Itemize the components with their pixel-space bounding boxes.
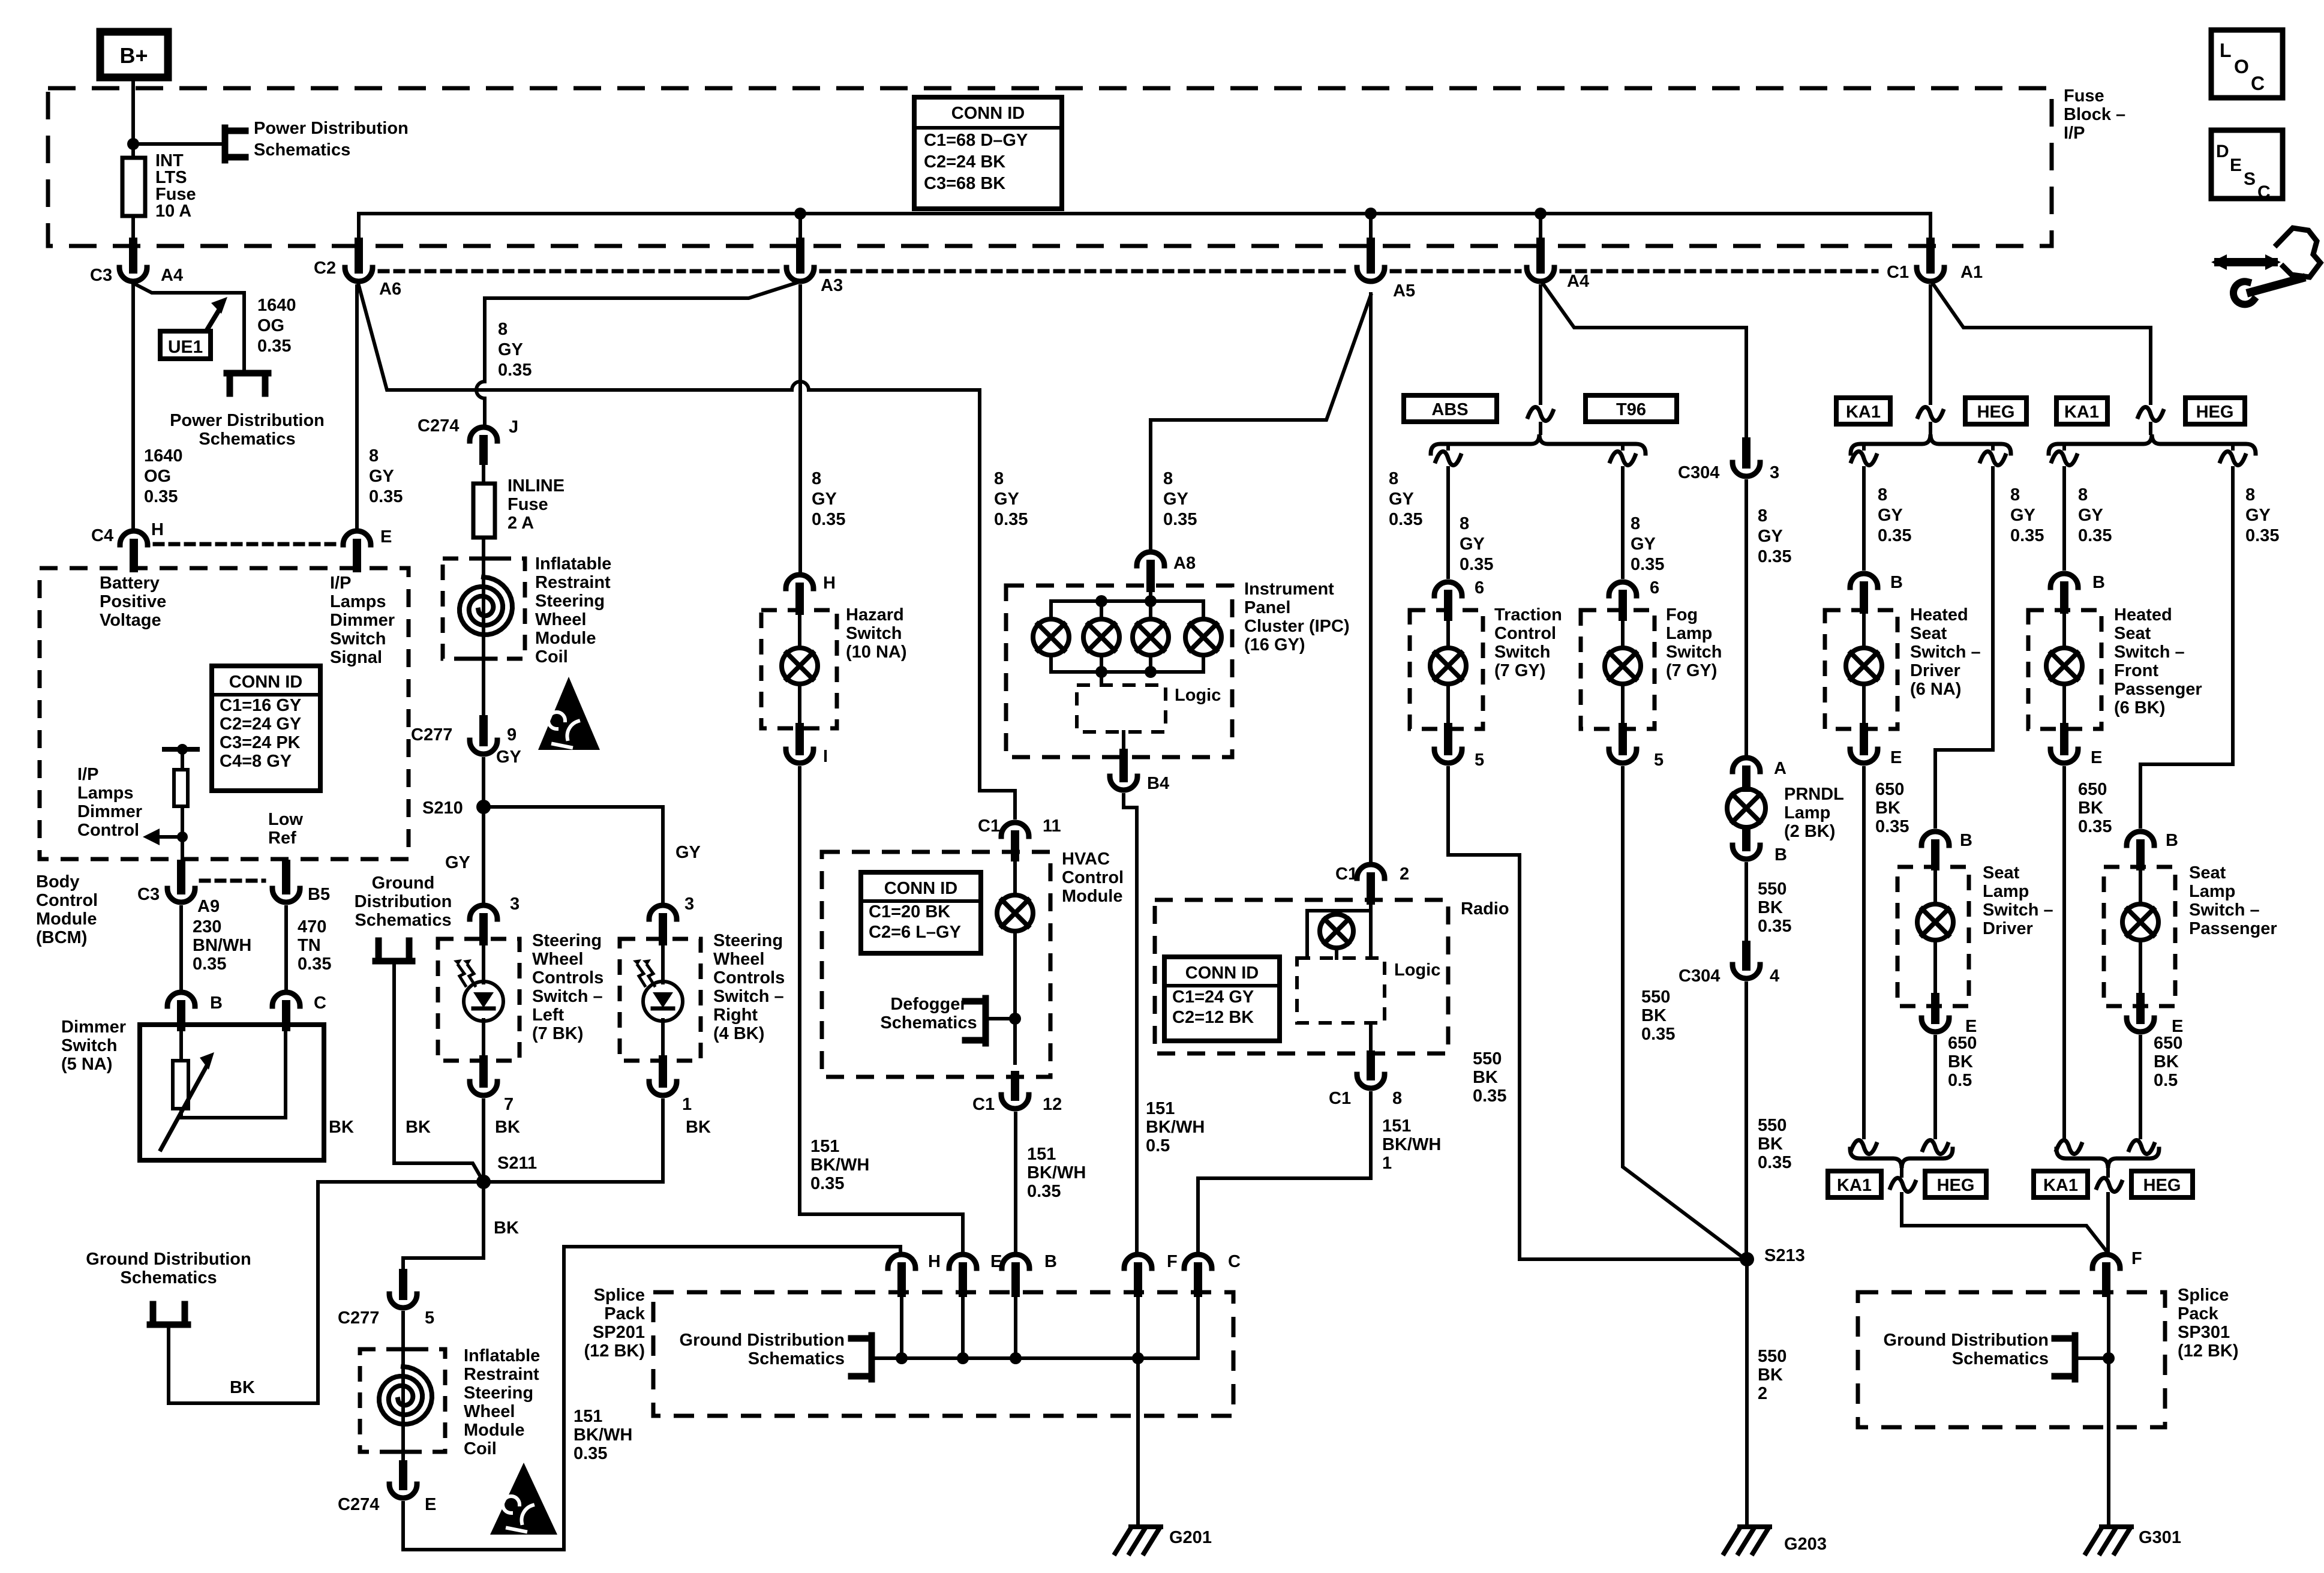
junction dot dimmer control	[177, 831, 188, 842]
svg-text:C1=24 GY: C1=24 GY	[1172, 987, 1254, 1007]
svg-text:230: 230	[193, 917, 221, 936]
lamp heated seat passenger	[2046, 648, 2082, 684]
connector 6 traction	[1434, 582, 1462, 596]
svg-text:B4: B4	[1147, 774, 1169, 793]
svg-text:Fog: Fog	[1666, 605, 1698, 625]
svg-text:Wheel: Wheel	[532, 950, 583, 969]
svg-text:B: B	[1960, 831, 1972, 850]
svg-text:Controls: Controls	[713, 968, 785, 987]
svg-text:Schematics: Schematics	[1952, 1349, 2049, 1368]
connector H hazard	[786, 575, 813, 589]
svg-text:0.35: 0.35	[1758, 1153, 1791, 1172]
svg-text:0.35: 0.35	[2245, 526, 2279, 545]
svg-text:Switch: Switch	[1494, 643, 1550, 662]
svg-text:A4: A4	[161, 266, 183, 285]
steering wheel controls switch right box	[620, 939, 701, 1061]
svg-text:3: 3	[510, 894, 520, 914]
svg-text:GY: GY	[2245, 506, 2271, 525]
svg-text:8: 8	[2245, 485, 2255, 505]
svg-text:Module: Module	[1062, 887, 1123, 906]
svg-text:C1=20 BK: C1=20 BK	[869, 902, 950, 921]
wire heated seat driver drop	[1862, 444, 1866, 449]
svg-text:5: 5	[425, 1308, 434, 1328]
reference bracket defogger	[983, 998, 989, 1043]
svg-text:CONN ID: CONN ID	[884, 879, 957, 898]
connector 7 left switch	[479, 1059, 488, 1083]
svg-text:Body: Body	[36, 872, 80, 891]
svg-text:0.35: 0.35	[810, 1174, 844, 1193]
svg-text:(12 BK): (12 BK)	[584, 1341, 645, 1361]
connector C304/3	[1742, 442, 1750, 464]
wire seat lamp passenger E down	[2139, 1037, 2142, 1137]
svg-text:Logic: Logic	[1394, 960, 1440, 980]
svg-text:Defogger: Defogger	[890, 995, 966, 1014]
svg-text:Ref: Ref	[268, 828, 296, 848]
dimmer variable resistor	[179, 1025, 183, 1061]
connector B4 IPC	[1119, 753, 1128, 778]
connector 6 fog	[1609, 582, 1637, 596]
arrow I/P lamps dimmer control	[155, 835, 182, 839]
svg-text:3: 3	[684, 894, 694, 914]
splice pack internal wires	[900, 1289, 903, 1358]
CONN ID table fuse block	[914, 97, 1062, 209]
brace driver group	[1851, 434, 2011, 454]
svg-text:GY: GY	[2078, 506, 2103, 525]
svg-text:Heated: Heated	[1910, 605, 1968, 625]
svg-text:GY: GY	[1389, 490, 1414, 509]
wire bracket to S211	[394, 961, 484, 1182]
svg-text:E: E	[2091, 748, 2102, 767]
svg-text:(10 NA): (10 NA)	[846, 643, 907, 662]
option box KA1 (driver)	[1836, 398, 1890, 424]
svg-text:9: 9	[507, 725, 517, 745]
wire traction 5 to S213	[1448, 768, 1740, 1259]
svg-text:10 A: 10 A	[155, 202, 191, 221]
wire out of heated driver lamp	[1862, 684, 1866, 728]
service icon arrow	[2218, 258, 2274, 266]
svg-text:C1: C1	[1887, 263, 1909, 282]
connector E heated driver	[1860, 727, 1868, 751]
seat lamp switch driver box	[1897, 867, 1969, 1006]
svg-text:0.35: 0.35	[1027, 1182, 1061, 1201]
wire C1/12 to splice pack B	[1014, 1113, 1017, 1251]
svg-text:550: 550	[1758, 879, 1786, 899]
svg-text:0.5: 0.5	[2154, 1071, 2178, 1090]
svg-text:Passenger: Passenger	[2189, 919, 2277, 938]
svg-text:OG: OG	[144, 467, 171, 486]
svg-text:BK: BK	[1758, 898, 1783, 917]
wire B+ stem	[131, 77, 135, 158]
svg-text:Lamp: Lamp	[1666, 624, 1712, 643]
BCM lower dotted line	[201, 879, 264, 883]
brace passenger group	[2049, 434, 2256, 454]
wire out of seat lamp passenger	[2139, 940, 2142, 1006]
svg-text:GY: GY	[812, 490, 837, 509]
option box KA1 (driver bottom)	[1828, 1171, 1881, 1197]
connector 1 right switch	[659, 1059, 667, 1083]
splice pack bus	[872, 1356, 1198, 1360]
connector C277/9	[479, 719, 488, 742]
crossing tick coil box top	[472, 557, 496, 561]
reference bracket Power Distribution Schematics	[222, 128, 229, 160]
svg-text:BK: BK	[230, 1378, 255, 1397]
svg-text:(16 GY): (16 GY)	[1244, 635, 1305, 655]
svg-text:0.35: 0.35	[1631, 555, 1664, 574]
connector B seat lamp passenger	[2127, 831, 2154, 845]
wire S211 horizontal to left riser	[318, 1180, 484, 1184]
svg-text:0.35: 0.35	[1163, 510, 1197, 529]
svg-text:BK: BK	[1948, 1052, 1973, 1071]
svg-text:B: B	[1044, 1252, 1057, 1271]
svg-text:D: D	[2216, 142, 2229, 161]
svg-text:0.35: 0.35	[1641, 1025, 1675, 1044]
connector C splice pack	[1184, 1254, 1212, 1268]
svg-text:Lamp: Lamp	[1784, 803, 1830, 822]
svg-text:Switch –: Switch –	[1983, 900, 2053, 920]
wire C1/8 to splice pack C	[1198, 1093, 1371, 1251]
svg-text:G203: G203	[1784, 1535, 1827, 1554]
wire into seat lamp passenger	[2139, 867, 2142, 904]
option box HEG (driver)	[1965, 398, 2026, 424]
svg-text:GY: GY	[1460, 535, 1485, 554]
svg-text:A9: A9	[197, 897, 220, 916]
svg-text:650: 650	[1948, 1034, 1977, 1053]
svg-text:TN: TN	[298, 936, 321, 955]
airbag warning triangle	[538, 677, 600, 750]
svg-text:SP201: SP201	[593, 1323, 645, 1342]
IPC lamp 1	[1033, 619, 1069, 655]
svg-text:Restraint: Restraint	[464, 1365, 539, 1384]
CONN ID table HVAC	[861, 872, 981, 953]
crossing tick coil2 bottom	[391, 1450, 415, 1454]
wire into heated driver lamp	[1862, 610, 1866, 648]
wire hazard I to splice pack E	[800, 768, 963, 1251]
svg-text:11: 11	[1043, 816, 1061, 836]
svg-text:Low: Low	[268, 810, 303, 829]
SP301 bus	[2075, 1356, 2109, 1360]
svg-text:BK: BK	[1758, 1365, 1783, 1385]
svg-text:0.35: 0.35	[1473, 1086, 1506, 1106]
svg-text:0.35: 0.35	[2078, 526, 2112, 545]
wire C304/3 to PRNDL A	[1744, 481, 1748, 754]
brace ABS/T96	[1431, 434, 1646, 454]
svg-text:(4 BK): (4 BK)	[713, 1024, 764, 1043]
hazard feed wire A3 down	[798, 286, 802, 571]
svg-text:Left: Left	[532, 1005, 565, 1025]
svg-text:Seat: Seat	[1983, 863, 2020, 882]
svg-text:INLINE: INLINE	[508, 476, 565, 496]
svg-text:8: 8	[1460, 514, 1469, 533]
svg-text:GY: GY	[369, 467, 394, 486]
IPC logic box	[1077, 685, 1166, 732]
svg-text:BK: BK	[686, 1118, 711, 1137]
svg-text:E: E	[2230, 155, 2242, 175]
power terminal B+	[100, 32, 168, 77]
BCM dimmer resistor	[164, 747, 197, 752]
LOC legend box	[2211, 30, 2283, 98]
UE1 arrow	[207, 310, 219, 330]
dimmer switch box	[140, 1025, 324, 1160]
fuse INLINE 2A	[473, 484, 495, 538]
svg-text:8: 8	[994, 469, 1004, 488]
wire fuse to connector C3/A4	[131, 216, 135, 246]
coil spiral	[460, 577, 512, 635]
connector 3 right switch	[649, 905, 677, 919]
svg-text:HEG: HEG	[2196, 403, 2234, 422]
svg-text:SP301: SP301	[2178, 1323, 2230, 1342]
svg-text:Control: Control	[1494, 624, 1556, 643]
wire into right LED	[661, 939, 665, 983]
wire PRNDL B to C304/4	[1744, 864, 1748, 956]
svg-text:0.5: 0.5	[1146, 1136, 1170, 1155]
svg-text:Switch: Switch	[61, 1036, 117, 1055]
svg-text:KA1: KA1	[1846, 403, 1881, 422]
svg-text:B: B	[1774, 845, 1787, 864]
svg-text:Schematics: Schematics	[254, 140, 350, 160]
wire C3/A4 down to BCM C4/H	[131, 286, 135, 527]
svg-text:Ground Distribution: Ground Distribution	[1884, 1331, 2049, 1350]
svg-text:S211: S211	[497, 1154, 537, 1173]
reference bracket ground (lower left)	[150, 1322, 188, 1328]
radio logic box	[1297, 958, 1385, 1023]
svg-text:650: 650	[2154, 1034, 2182, 1053]
svg-text:Voltage: Voltage	[100, 611, 161, 630]
svg-text:C3: C3	[137, 885, 160, 904]
wire A1 branch to second group	[1932, 282, 2151, 403]
junction dots splice bus	[896, 1352, 908, 1364]
connector C dimmer	[272, 992, 300, 1006]
connector C1/12 HVAC	[1011, 1075, 1019, 1097]
svg-text:C1: C1	[978, 816, 1000, 836]
connector A5	[1367, 242, 1375, 269]
connector B heated driver	[1850, 574, 1878, 587]
svg-text:Wheel: Wheel	[535, 610, 586, 629]
lamp fog switch	[1605, 648, 1641, 684]
svg-text:0.35: 0.35	[1460, 555, 1493, 574]
wire fog drop	[1621, 444, 1625, 449]
svg-text:HEG: HEG	[1977, 403, 2015, 422]
wire B5 to C dimmer	[284, 907, 288, 989]
connector C3/A4	[129, 242, 137, 269]
svg-text:Module: Module	[36, 909, 97, 929]
wire into traction lamp	[1446, 610, 1450, 648]
svg-text:Power Distribution: Power Distribution	[254, 119, 409, 138]
svg-text:BK: BK	[329, 1118, 354, 1137]
svg-text:HVAC: HVAC	[1062, 849, 1110, 869]
wire out of right LED	[661, 1020, 665, 1061]
svg-text:BK: BK	[2154, 1052, 2179, 1071]
connector 3 left switch	[470, 905, 497, 919]
splice pack SP301 box	[1858, 1292, 2165, 1427]
svg-text:KA1: KA1	[2064, 403, 2099, 422]
connector B heated passenger	[2050, 574, 2078, 587]
wire A5 riser	[1369, 214, 1373, 246]
svg-text:E: E	[1890, 748, 1902, 767]
svg-text:C3: C3	[90, 266, 112, 285]
svg-text:Dimmer: Dimmer	[330, 611, 395, 630]
svg-text:C274: C274	[418, 416, 459, 436]
svg-text:GY: GY	[1163, 490, 1188, 509]
svg-text:Power Distribution: Power Distribution	[170, 411, 325, 430]
junction dot defogger tap	[1009, 1013, 1021, 1025]
connector E BCM	[343, 531, 371, 545]
reference bracket SP301	[2072, 1335, 2079, 1379]
wire fog 5 to S213	[1623, 768, 1740, 1255]
svg-text:(7 BK): (7 BK)	[532, 1024, 583, 1043]
svg-text:C2=24 BK: C2=24 BK	[924, 152, 1005, 172]
svg-text:BK/WH: BK/WH	[810, 1155, 869, 1175]
ground G301	[2101, 1524, 2131, 1529]
svg-text:C304: C304	[1678, 463, 1719, 482]
crossing tick coil2 top	[391, 1347, 415, 1352]
svg-text:Switch –: Switch –	[2114, 643, 2185, 662]
wire seat lamp driver drop	[1991, 444, 1995, 449]
svg-text:BK: BK	[494, 1218, 519, 1238]
svg-text:550: 550	[1473, 1049, 1502, 1068]
svg-text:CONN ID: CONN ID	[1185, 963, 1259, 983]
svg-text:1640: 1640	[144, 446, 183, 466]
svg-text:151: 151	[1146, 1099, 1175, 1118]
svg-text:Driver: Driver	[1983, 919, 2033, 938]
svg-text:8: 8	[1878, 485, 1887, 505]
wire heated seat passenger drop	[2062, 444, 2066, 449]
wire to inline fuse	[482, 457, 485, 484]
svg-text:8: 8	[1758, 506, 1767, 526]
option box HEG (passenger bottom)	[2131, 1171, 2193, 1197]
svg-text:0.35: 0.35	[193, 954, 226, 974]
svg-text:C3=24 PK: C3=24 PK	[220, 733, 301, 752]
svg-text:12: 12	[1043, 1095, 1062, 1114]
svg-text:G201: G201	[1169, 1528, 1212, 1547]
svg-text:550: 550	[1758, 1116, 1786, 1135]
connector C1/11 HVAC	[1001, 822, 1029, 836]
wire breaks above bottom brace driver	[1851, 1140, 1876, 1154]
wire out of left LED	[482, 1020, 485, 1061]
svg-text:0.35: 0.35	[812, 510, 845, 529]
svg-text:8: 8	[812, 469, 821, 488]
junction dot bus A3	[794, 208, 806, 220]
svg-text:7: 7	[504, 1095, 514, 1114]
service icon wrench	[2251, 278, 2301, 292]
svg-text:Schematics: Schematics	[748, 1349, 845, 1368]
svg-text:Logic: Logic	[1175, 686, 1221, 705]
svg-text:S213: S213	[1764, 1246, 1805, 1265]
wire into left LED	[482, 939, 485, 983]
wire out of traction lamp	[1446, 684, 1450, 728]
svg-text:(7 GY): (7 GY)	[1494, 661, 1545, 680]
svg-text:C1: C1	[1335, 864, 1358, 884]
IPC lamp bus bottom	[1051, 655, 1203, 672]
svg-text:BK/WH: BK/WH	[1027, 1163, 1086, 1182]
svg-text:GY: GY	[1758, 527, 1783, 546]
connector B seat lamp driver	[1921, 831, 1949, 845]
crossing tick coil box bottom	[472, 657, 496, 661]
wire traction drop	[1446, 444, 1450, 449]
wire into seat lamp driver	[1933, 867, 1937, 904]
BCM connector dotted line	[155, 542, 336, 547]
svg-text:GY: GY	[1878, 506, 1903, 525]
bus wire inside fuse block	[359, 214, 1930, 271]
wire out of hazard lamp	[798, 684, 801, 728]
wire A4 branch to C304	[1542, 282, 1746, 444]
body control module box	[40, 568, 409, 859]
wire heated passenger E down	[2062, 768, 2066, 1137]
svg-text:Splice: Splice	[2178, 1286, 2229, 1305]
lamp heated seat driver	[1846, 648, 1882, 684]
svg-text:650: 650	[2078, 780, 2107, 799]
LED right switch	[643, 981, 683, 1021]
CONN ID table radio	[1164, 957, 1280, 1041]
connector H splice pack	[888, 1254, 915, 1268]
svg-text:C2=24 GY: C2=24 GY	[220, 715, 301, 734]
traction control switch box	[1410, 610, 1483, 729]
wire 7 to S211	[482, 1100, 485, 1182]
svg-text:O: O	[2234, 56, 2249, 77]
svg-text:Control: Control	[77, 821, 139, 840]
svg-text:Module: Module	[535, 629, 596, 648]
svg-text:(6 NA): (6 NA)	[1910, 680, 1961, 699]
wire S211 down to C277/5	[403, 1182, 484, 1272]
svg-text:BK/WH: BK/WH	[1146, 1118, 1205, 1137]
svg-text:Schematics: Schematics	[880, 1013, 977, 1032]
reference bracket power distribution (UE1)	[227, 370, 268, 377]
svg-text:8: 8	[369, 446, 379, 466]
svg-text:BK: BK	[495, 1118, 520, 1137]
svg-text:4: 4	[1770, 966, 1779, 986]
svg-text:Hazard: Hazard	[846, 605, 904, 625]
splice pack SP201 box	[653, 1292, 1233, 1416]
svg-text:Controls: Controls	[532, 968, 603, 987]
radio lamp stem	[1335, 948, 1338, 958]
wire C2/A6 down to BCM E	[355, 286, 359, 527]
reference bracket SP201	[869, 1335, 875, 1379]
svg-text:Lamps: Lamps	[330, 592, 386, 611]
junction dot bus A5	[1365, 208, 1377, 220]
wire to power distribution reference	[133, 142, 225, 146]
svg-text:C304: C304	[1679, 966, 1720, 986]
svg-text:6: 6	[1475, 578, 1484, 598]
heated seat switch driver box	[1825, 610, 1897, 729]
svg-text:C274: C274	[338, 1495, 379, 1514]
svg-text:0.35: 0.35	[257, 337, 291, 356]
svg-text:ABS: ABS	[1431, 400, 1468, 419]
svg-text:Steering: Steering	[464, 1383, 533, 1403]
svg-text:Right: Right	[713, 1005, 758, 1025]
svg-text:GY: GY	[994, 490, 1019, 509]
connector F splice pack	[1124, 1254, 1152, 1268]
svg-text:8: 8	[1163, 469, 1173, 488]
connector C2/A6	[355, 242, 363, 269]
svg-text:I/P: I/P	[77, 765, 98, 784]
svg-text:0.35: 0.35	[144, 487, 178, 506]
svg-text:2: 2	[1400, 864, 1409, 884]
option box ABS	[1404, 395, 1497, 422]
IPC lamp 3	[1133, 619, 1169, 655]
svg-text:0.35: 0.35	[1878, 526, 1911, 545]
IPC lamp 2	[1083, 619, 1119, 655]
radio box	[1155, 900, 1448, 1053]
svg-text:Control: Control	[1062, 868, 1124, 887]
option box KA1 (passenger bottom)	[2034, 1171, 2088, 1197]
wire breaks above bottom brace passenger	[2056, 1140, 2082, 1154]
fog lamp switch box	[1581, 610, 1655, 729]
svg-text:B: B	[2166, 831, 2178, 850]
wire C274/E to splice pack H	[403, 1247, 900, 1550]
wire F down to ground G301	[2107, 1289, 2110, 1358]
svg-text:BK: BK	[1758, 1134, 1783, 1154]
svg-text:Seat: Seat	[2114, 624, 2151, 643]
svg-text:Seat: Seat	[2189, 863, 2226, 882]
